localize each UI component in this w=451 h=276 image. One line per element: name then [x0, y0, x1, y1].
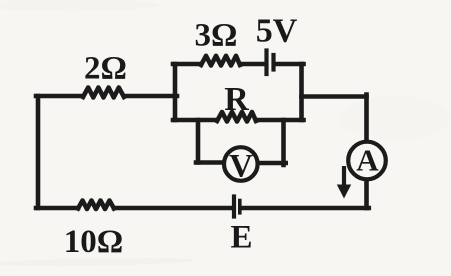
battery B2 E long plate [232, 197, 236, 217]
svg-text:10Ω: 10Ω [64, 224, 123, 260]
resistor R4 10ohm zigzag [78, 201, 114, 210]
wire: bottom horizontal left of battery E [36, 206, 232, 211]
resistor R2 3ohm zigzag [201, 56, 240, 66]
wire: box top edge left segment [173, 62, 201, 67]
wire: voltmeter loop right horizontal [258, 161, 286, 166]
wire: box top edge middle segment to 5V battery [240, 62, 264, 67]
wire: right horizontal from box to ammeter branch [302, 94, 367, 99]
wire: left vertical from top-left corner down to bottom-left corner [36, 96, 41, 208]
resistor R1 2ohm zigzag [83, 88, 124, 98]
svg-text:A: A [356, 143, 379, 178]
voltmeter V circle [224, 147, 258, 181]
wire: parallel box left edge [173, 64, 178, 120]
wire: parallel box right edge [299, 64, 304, 120]
wire: box bottom edge right segment [256, 118, 304, 123]
wire: right vertical from corner down to ammeter [364, 95, 369, 142]
resistor R3 R zigzag [217, 112, 256, 122]
svg-text:E: E [230, 220, 252, 256]
wire: top-left horizontal from left vertical to box left edge [36, 94, 177, 99]
wire: voltmeter loop left vertical [196, 120, 201, 163]
wire: voltmeter loop left horizontal [196, 160, 224, 165]
svg-text:3Ω: 3Ω [195, 18, 238, 54]
battery B2 E short plate [238, 201, 242, 213]
svg-text:2Ω: 2Ω [84, 51, 127, 87]
wire: box top edge right segment from 5V battery [276, 62, 304, 67]
ammeter A circle [348, 142, 386, 180]
wire: box bottom edge left segment [173, 118, 217, 123]
battery B1 5V long plate [264, 51, 268, 75]
battery B1 5V short plate [271, 55, 275, 70]
wire: right vertical from ammeter down to bottom-right corner [364, 179, 369, 208]
svg-text:5V: 5V [256, 13, 298, 50]
svg-text:R: R [224, 81, 249, 118]
svg-text:V: V [229, 149, 253, 185]
wire: voltmeter loop right vertical [281, 120, 286, 165]
current direction arrow [337, 166, 351, 199]
wire: bottom horizontal right of battery E to bottom-right corner [242, 206, 369, 211]
